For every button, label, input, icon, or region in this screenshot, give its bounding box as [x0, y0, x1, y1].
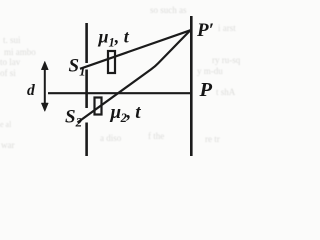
- svg-text:d: d: [27, 82, 35, 99]
- wire: left barrier line middle segment (between slits): [85, 70, 88, 109]
- svg-text:to lav: to lav: [0, 57, 21, 67]
- svg-text:re tr: re tr: [205, 134, 220, 144]
- svg-text:i arst: i arst: [218, 23, 236, 33]
- faint bleed-through text top-left: [0, 35, 36, 129]
- svg-text:f the: f the: [148, 131, 164, 141]
- wire: left barrier line top segment: [85, 23, 88, 63]
- svg-text:of si: of si: [0, 68, 16, 78]
- svg-text:t shA: t shA: [216, 87, 236, 97]
- svg-text:t. sui: t. sui: [3, 35, 21, 45]
- svg-text:P′: P′: [196, 20, 214, 41]
- svg-text:e al: e al: [0, 120, 12, 129]
- wire: ray S2 to P': [78, 30, 191, 123]
- svg-text:mi ambo: mi ambo: [4, 47, 36, 57]
- svg-text:ry ru-sq: ry ru-sq: [212, 55, 241, 65]
- slab mu1,t: [108, 51, 115, 73]
- svg-text:y m-du: y m-du: [197, 66, 223, 76]
- svg-text:war: war: [1, 140, 15, 150]
- wire: central axis to P: [48, 92, 191, 94]
- svg-text:so such as: so such as: [150, 5, 187, 15]
- wire: ray S1 to P': [80, 30, 191, 69]
- paper background: [0, 0, 254, 171]
- slab mu2,t: [95, 98, 102, 115]
- wire: left barrier line bottom segment: [85, 123, 88, 157]
- svg-text:a diso: a diso: [100, 133, 122, 143]
- wire: right screen line: [190, 16, 193, 156]
- arrow d (double-headed): [41, 61, 48, 111]
- faint bleed-through bottom: [1, 5, 220, 150]
- faint bleed-through text right column: [197, 23, 241, 97]
- svg-text:P: P: [199, 79, 213, 101]
